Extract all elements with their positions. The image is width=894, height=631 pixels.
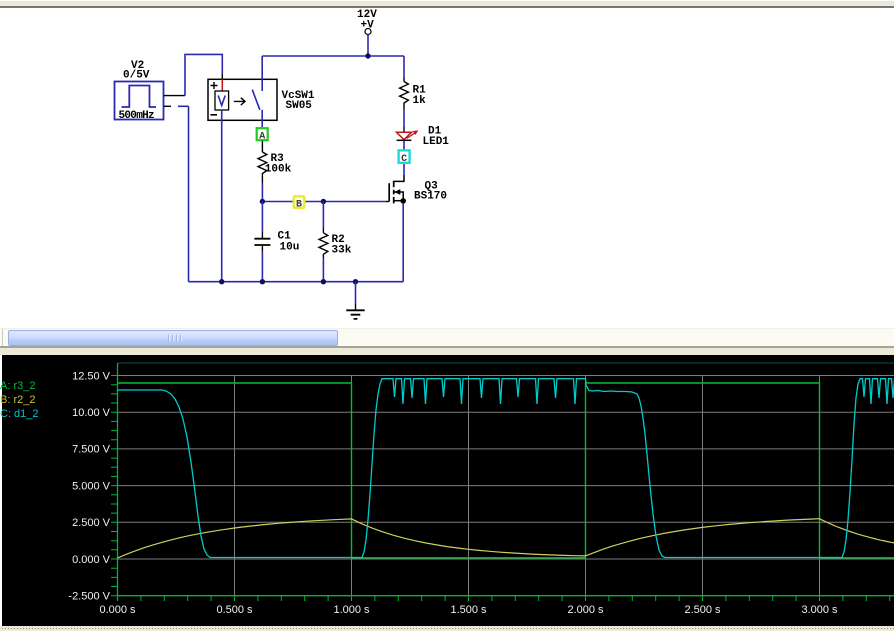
svg-text:BS170: BS170 [414,191,447,203]
scope x axis ticks [118,596,890,601]
junction dot rail / voltmeter return [219,279,224,284]
node B label [294,196,305,210]
scope x axis [118,595,894,597]
wire LED cathode down to node C [403,140,405,175]
scope legend [0,380,39,420]
scope horizontal gridlines [118,376,894,560]
wire supply rail 12V horizontal [262,55,404,57]
pin gate lead [386,201,389,203]
LED D1 LED1 [396,126,449,149]
svg-text:7.500 V: 7.500 V [72,444,111,456]
voltmeter box inside switch [215,91,229,110]
bottom strip [0,626,894,631]
capacitor C1 10u [254,202,299,282]
wire node B horizontal to gate [262,201,386,203]
scrollbar thumb [8,330,338,346]
svg-text:0.000 V: 0.000 V [72,554,111,566]
node C label [399,150,410,165]
wire from +V terminal down to supply rail [367,35,369,57]
junction dot at R2 top [321,199,326,204]
minus sign inside switch [211,114,218,116]
node A label [257,128,268,142]
plus sign inside switch [211,82,218,89]
wire R3 to node B [261,183,263,202]
junction dot rail / C1 [260,279,265,284]
pin V2 minus output stub [164,105,189,107]
wire 12V rail down into switch pole [261,56,263,91]
svg-text:500mHz: 500mHz [119,110,155,122]
voltage source V2 0/5V 500mHz [115,60,164,122]
separator line [0,346,894,348]
junction dot at C1 top [260,199,265,204]
scope y axis labels [68,370,110,602]
wire down to ground symbol [355,282,357,304]
svg-text:10.00 V: 10.00 V [72,407,111,419]
scope panel background [2,355,894,626]
scope top boundary line [118,362,894,364]
svg-text:100k: 100k [265,164,292,176]
svg-text:C: C [401,154,407,165]
arrow inside switch [234,98,245,105]
svg-text:0.000 s: 0.000 s [99,604,136,616]
svg-text:LED1: LED1 [423,136,450,148]
svg-text:0.500 s: 0.500 s [216,604,253,616]
svg-text:33k: 33k [332,245,352,257]
node junction on 12V rail [365,53,370,58]
wire switch throw down to node A [261,110,263,128]
scope y axis minor ticks [111,376,118,596]
top window strip [0,0,894,1]
junction dot rail / ground [353,279,358,284]
scrollbar grip [168,335,182,341]
trace B r2_2 yellow RC curve [118,519,894,558]
junction dot rail / R2 [321,279,326,284]
scope x axis labels [99,604,838,616]
power terminal +V 12V [357,9,377,35]
svg-text:1.000 s: 1.000 s [333,604,370,616]
controlled switch U1 VcSW1 SW05 box [208,79,315,120]
wire V2 minus down to ground rail [188,106,190,281]
svg-text:2.000 s: 2.000 s [567,604,604,616]
svg-text:0/5V: 0/5V [123,70,150,82]
svg-text:3.000 s: 3.000 s [801,604,838,616]
trace C d1_2 cyan drain voltage [118,379,894,558]
scope y axis [117,363,119,601]
svg-text:5.000 V: 5.000 V [72,480,111,492]
svg-text:B: B [296,199,302,210]
pin V2 plus output stub [164,95,185,97]
svg-text:B: r2_2: B: r2_2 [0,394,35,406]
trace A r3_2 green square wave [118,383,894,558]
wire ground rail [189,281,404,283]
pin switch control plus (red segment) [221,74,223,91]
wire voltmeter minus down to ground rail [221,110,223,282]
svg-text:1k: 1k [413,95,427,107]
scrollbar track [0,328,894,348]
svg-text:1.500 s: 1.500 s [450,604,487,616]
svg-text:2.500 V: 2.500 V [72,517,111,529]
ground symbol [346,304,364,319]
svg-text:10u: 10u [280,242,300,254]
scope vertical gridlines [235,376,820,596]
svg-text:C: d1_2: C: d1_2 [0,408,39,420]
resistor R2 33k [319,202,352,282]
svg-text:-2.500 V: -2.500 V [68,591,110,603]
wire V2 plus up-and-over to switch control input [185,54,222,95]
svg-text:12.50 V: 12.50 V [72,370,111,382]
wire source down to ground rail [402,203,404,282]
svg-text:SW05: SW05 [286,100,313,112]
svg-text:A: r3_2: A: r3_2 [0,380,35,392]
transistor Q3 BS170 (n-mosfet) [389,175,447,204]
resistor R3 100k [258,141,292,183]
schematic canvas [0,0,894,330]
resistor R1 1k [400,56,427,127]
svg-text:2.500 s: 2.500 s [684,604,721,616]
switch blade (open) [252,90,259,110]
